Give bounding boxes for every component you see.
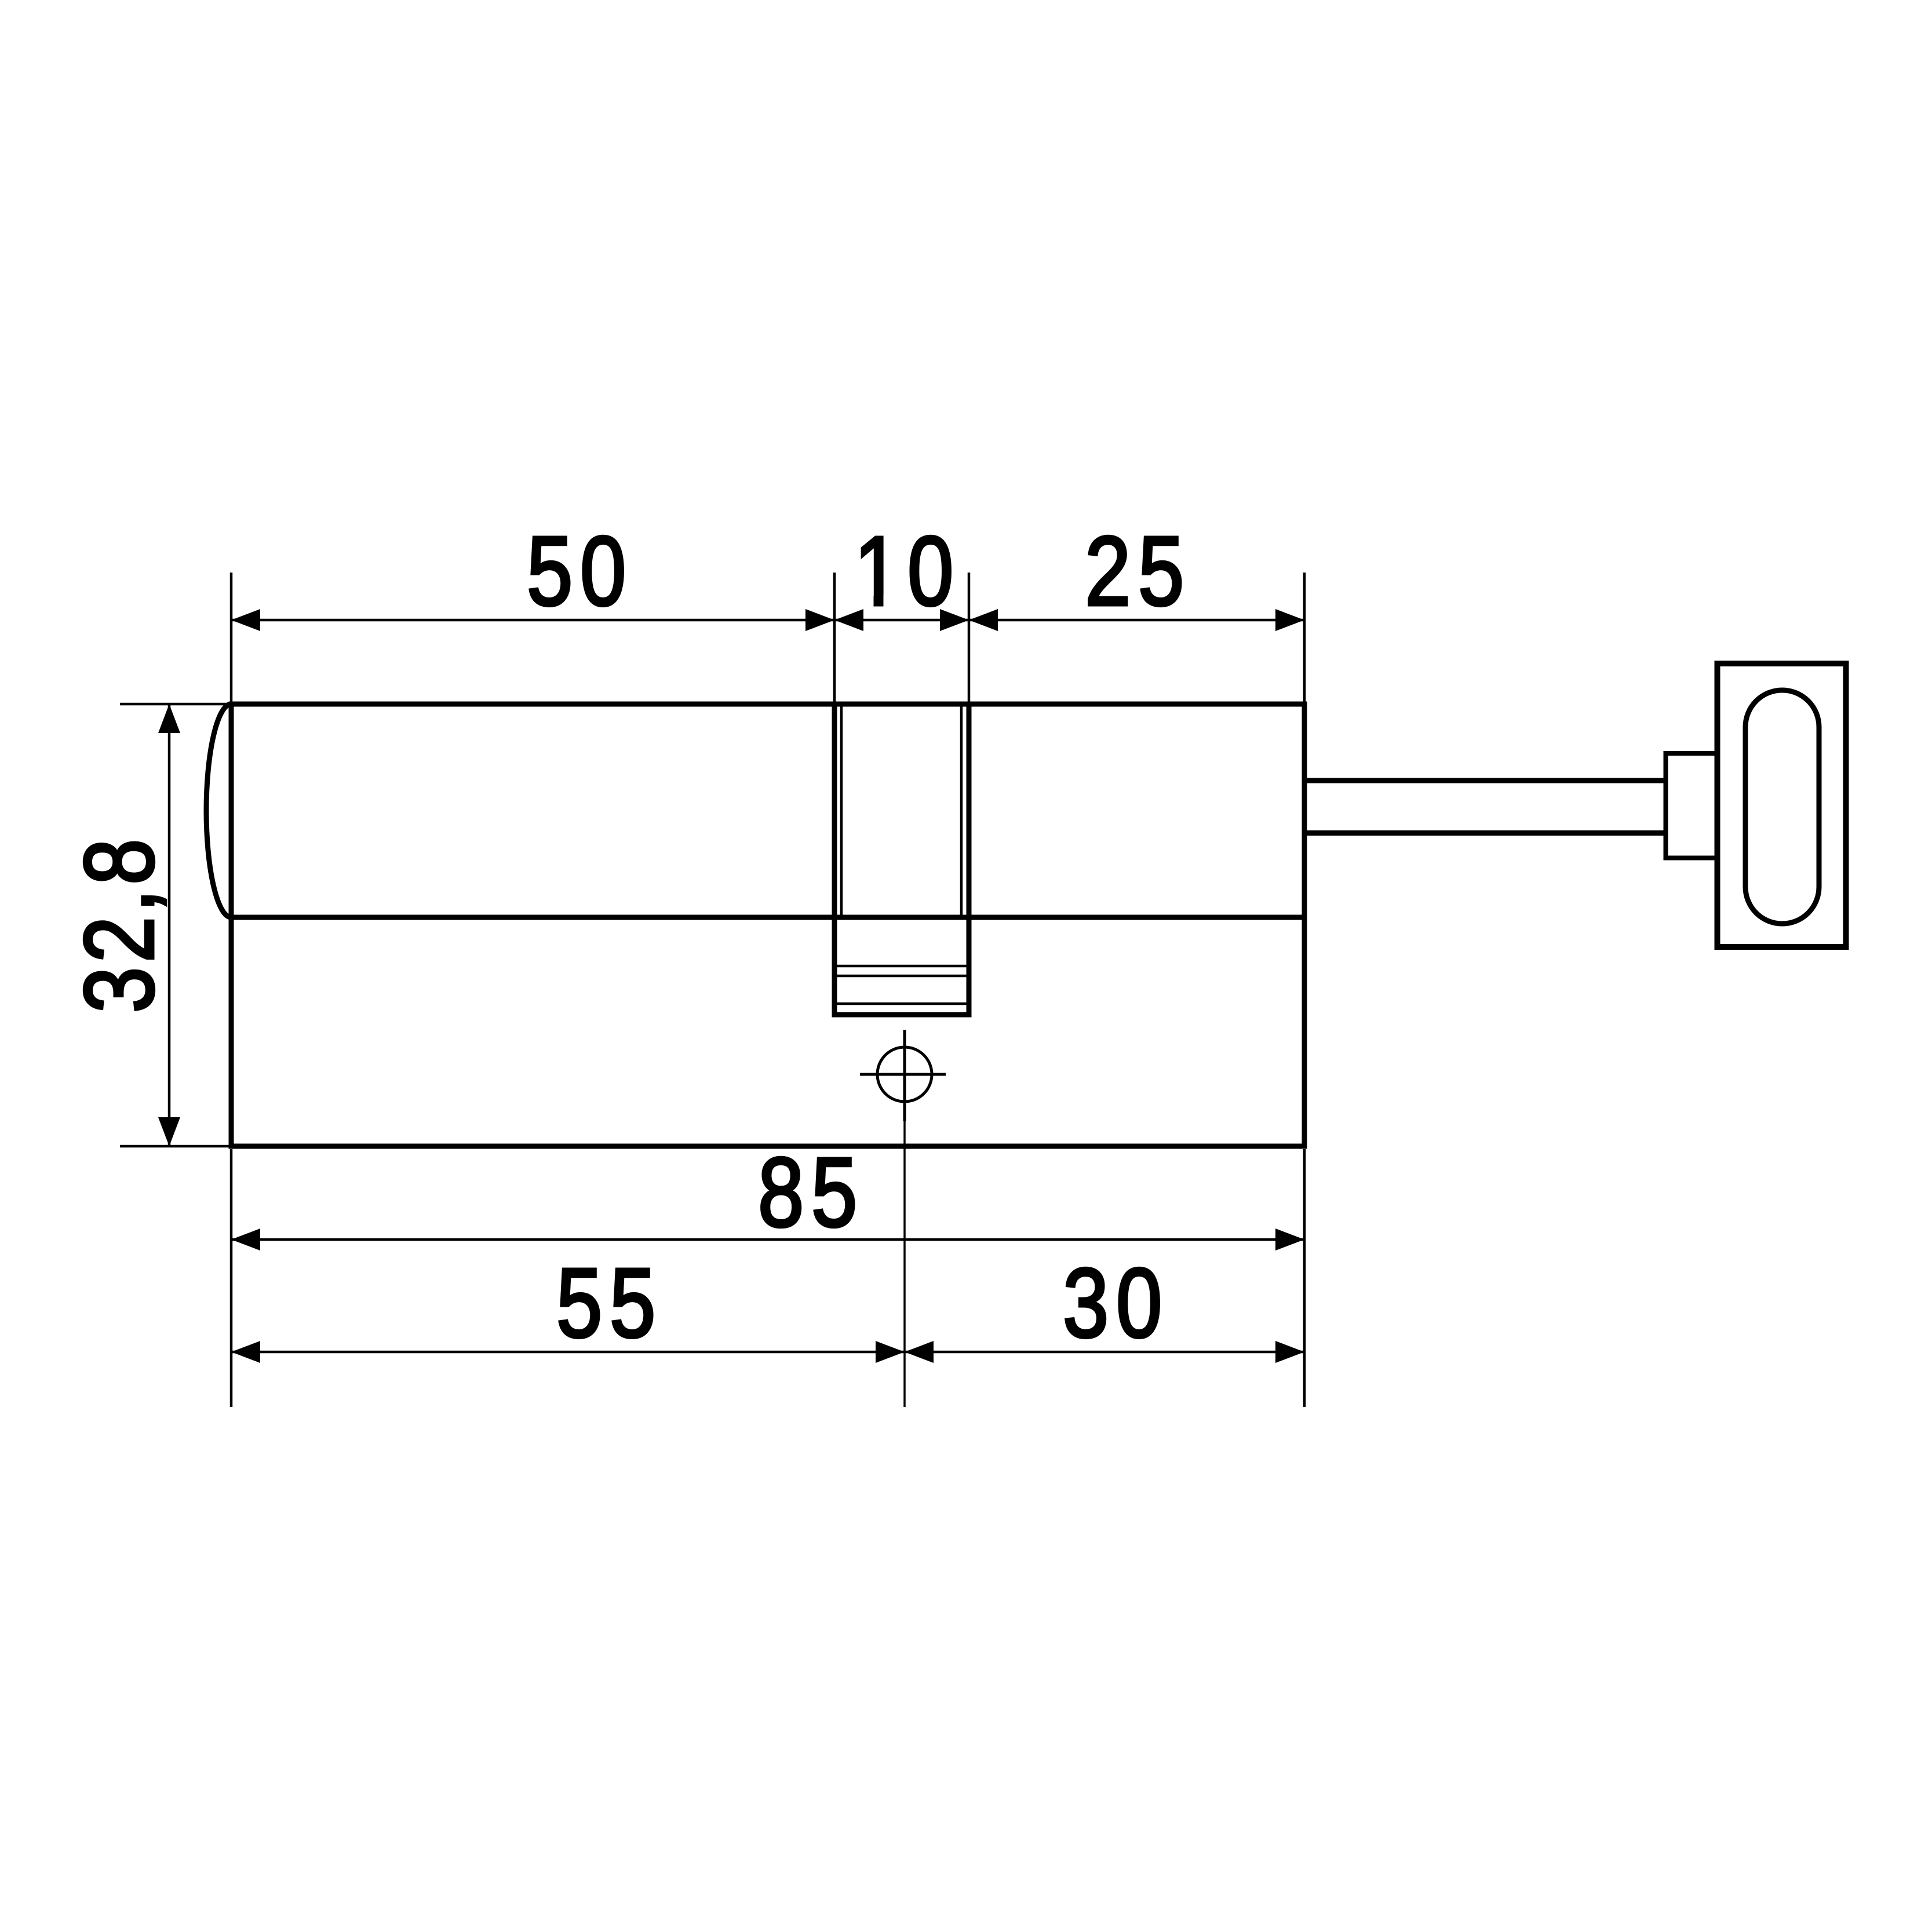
- svg-text:55: 55: [556, 1248, 663, 1358]
- svg-text:10: 10: [854, 516, 961, 626]
- svg-text:30: 30: [1063, 1248, 1169, 1358]
- svg-text:85: 85: [758, 1138, 865, 1248]
- svg-text:50: 50: [527, 516, 633, 626]
- svg-text:32,8: 32,8: [64, 834, 174, 1013]
- svg-text:25: 25: [1085, 516, 1191, 626]
